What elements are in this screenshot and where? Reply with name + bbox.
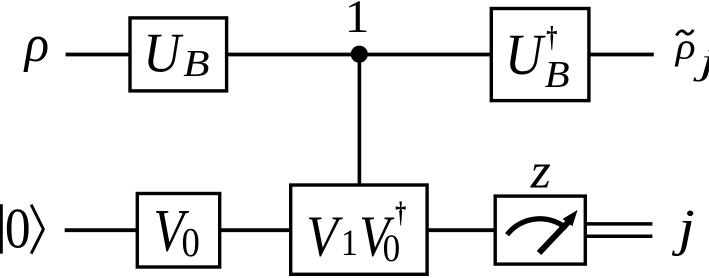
svg-text:z: z [530,143,551,198]
svg-text:†: † [546,21,557,53]
svg-text:0: 0 [182,219,200,265]
svg-text:B: B [183,43,209,85]
svg-text:B: B [545,54,570,96]
svg-text:0: 0 [383,227,401,270]
svg-text:U: U [143,22,184,84]
svg-text:U: U [505,22,546,87]
svg-text:ρ: ρ [675,26,696,67]
svg-text:1: 1 [341,222,358,263]
svg-text:ρ: ρ [23,16,49,73]
svg-text:†: † [395,196,406,229]
svg-text:0: 0 [5,198,31,261]
svg-text:j: j [671,200,694,257]
svg-text:1: 1 [345,0,370,43]
